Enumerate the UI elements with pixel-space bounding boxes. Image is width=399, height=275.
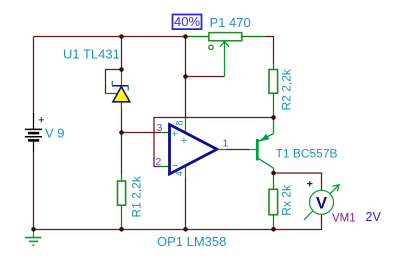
wire top rail: [34, 36, 186, 38]
svg-text:8: 8: [175, 120, 185, 125]
resistor Rx: [269, 189, 278, 214]
pin T1 base stub: [249, 149, 256, 151]
svg-text:V 9: V 9: [45, 126, 65, 141]
wire feedback loop pin2 to emitter node: [154, 118, 274, 167]
wire left rail lower (battery to ground node): [33, 152, 35, 230]
pin Rx bottom stub: [273, 215, 275, 230]
wire op-amp V+ rail: [185, 37, 187, 119]
pin op-amp pin4 stub: [185, 165, 187, 178]
ground: [25, 230, 42, 246]
svg-text:OP1 LM358: OP1 LM358: [157, 234, 226, 249]
svg-text:R2 2,2k: R2 2,2k: [279, 68, 293, 110]
node ref loop: [119, 67, 124, 72]
svg-text:Rx 2k: Rx 2k: [279, 184, 293, 216]
svg-text:+: +: [172, 129, 178, 141]
pin TL431 cathode stub: [121, 70, 123, 87]
node Rx bottom: [271, 227, 276, 232]
node top rail TL431: [119, 34, 124, 39]
wire pin3 horizontal: [122, 132, 162, 134]
node opamp V-: [183, 227, 188, 232]
wire node to R1: [121, 133, 123, 175]
svg-text:VM1: VM1: [332, 213, 356, 225]
wire TL431 ref loop: [106, 70, 122, 94]
pin op-amp pin2 stub: [160, 166, 170, 168]
node R1 bottom: [119, 227, 124, 232]
node ground: [31, 227, 36, 232]
pin R1 bottom stub: [121, 205, 123, 229]
wire pot right to R2 top: [265, 37, 274, 64]
node anode pin3: [119, 130, 124, 135]
svg-text:T1 BC557B: T1 BC557B: [276, 146, 338, 160]
pin op-amp pin8 stub: [185, 118, 187, 134]
wire bottom rail: [34, 215, 322, 230]
resistor R1: [118, 181, 126, 205]
node wiper: [183, 74, 188, 79]
svg-text:U1 TL431: U1 TL431: [63, 46, 120, 61]
svg-text:−: −: [172, 160, 178, 172]
svg-text:2V: 2V: [366, 210, 382, 224]
pin op-amp pin3 stub: [161, 132, 170, 134]
node top rail power: [183, 34, 188, 39]
svg-text:P1 470: P1 470: [210, 15, 251, 30]
transistor T1: [257, 118, 273, 174]
op-amp OP1: [170, 125, 218, 175]
svg-text:40%: 40%: [174, 14, 200, 29]
node collector: [271, 171, 276, 176]
pin R1 top stub: [121, 175, 123, 182]
svg-text:+: +: [181, 135, 187, 147]
svg-text:3: 3: [157, 122, 163, 134]
node emitter feedback: [271, 115, 276, 120]
pin Rx top stub: [273, 173, 275, 189]
wire wiper to power rail: [186, 76, 225, 78]
U1 TL431: [112, 81, 130, 109]
pin TL431 ref stub: [106, 93, 118, 95]
svg-text:1: 1: [223, 138, 229, 150]
potentiometer P1: [186, 33, 266, 77]
wire collector node to voltmeter: [274, 173, 322, 190]
svg-text:4: 4: [175, 171, 185, 176]
value box 40%: [173, 14, 202, 29]
wire TL431 cathode column: [121, 37, 123, 70]
battery V1: [25, 113, 45, 152]
svg-text:V: V: [316, 194, 327, 212]
svg-text:+: +: [307, 179, 313, 191]
wire op-amp V- rail: [185, 178, 187, 230]
wire left rail upper (battery to top corner): [33, 37, 35, 116]
pin op-amp output stub: [217, 149, 226, 151]
svg-text:2: 2: [156, 156, 162, 168]
voltmeter VM1: [304, 179, 339, 220]
wire TL431 anode to node: [121, 109, 123, 133]
resistor R2: [269, 70, 278, 94]
wire output to base: [226, 149, 249, 151]
svg-text:R1 2,2k: R1 2,2k: [130, 175, 144, 217]
svg-text:+: +: [38, 115, 44, 127]
pin R2 bottom stub: [273, 93, 275, 117]
pin R2 top stub: [273, 64, 275, 70]
